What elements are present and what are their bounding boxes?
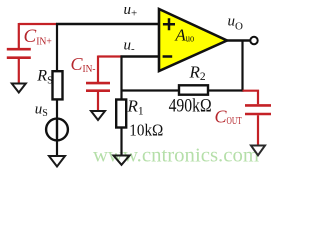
wire: feedback row right segment to output drop bbox=[208, 89, 244, 91]
resistor R1 bbox=[116, 100, 126, 128]
resistor RS bbox=[53, 71, 63, 99]
svg-text:u+: u+ bbox=[124, 2, 138, 20]
node u+ label bbox=[124, 2, 138, 20]
ground (COUT) bbox=[251, 146, 265, 156]
label R2 bbox=[189, 63, 206, 84]
svg-text:u-: u- bbox=[124, 37, 136, 55]
wire: junction down to RS bbox=[56, 23, 58, 71]
wire: output drop to feedback row bbox=[241, 41, 243, 92]
label CIN- bbox=[71, 54, 96, 75]
svg-text:uS: uS bbox=[35, 102, 48, 119]
wire: op-amp output to terminal bbox=[227, 39, 250, 41]
wire: COUT lead to ground bbox=[257, 115, 259, 144]
svg-text:RS: RS bbox=[36, 68, 53, 87]
node uO label bbox=[228, 14, 244, 33]
label 490k bbox=[169, 95, 212, 116]
ground (CIN+) bbox=[12, 84, 26, 93]
wire: CIN- vertical red lead bbox=[97, 56, 99, 83]
label uS bbox=[35, 102, 48, 119]
label Auo bbox=[174, 25, 194, 44]
wire: u- junction down to R1 bbox=[120, 56, 122, 100]
node u- label bbox=[124, 37, 136, 55]
op-amp U1 Auo bbox=[159, 9, 227, 71]
label 10k bbox=[129, 121, 163, 140]
capacitor COUT bbox=[245, 105, 271, 114]
svg-text:uO: uO bbox=[228, 14, 244, 33]
wire: source to ground bbox=[56, 140, 58, 155]
label COUT bbox=[215, 107, 242, 128]
watermark www.cntronics.com bbox=[93, 145, 259, 167]
svg-text:R1: R1 bbox=[127, 96, 144, 117]
wire: RS to source bbox=[56, 99, 58, 119]
output terminal circle bbox=[250, 37, 257, 44]
label R1 bbox=[127, 96, 144, 117]
wire: red segment to COUT bbox=[243, 91, 259, 105]
wire: CIN+ vertical red lead bbox=[18, 23, 20, 48]
svg-text:COUT: COUT bbox=[215, 107, 242, 128]
label RS bbox=[36, 68, 53, 87]
wire: u+ red segment from CIN+ to RS junction bbox=[19, 23, 57, 25]
wire: u- black wire to op-amp minus input bbox=[121, 55, 161, 57]
wire: CIN- lead to ground bbox=[97, 92, 99, 110]
svg-text:CIN-: CIN- bbox=[71, 54, 96, 75]
svg-text:490kΩ: 490kΩ bbox=[169, 95, 212, 116]
label CIN+ bbox=[24, 26, 52, 47]
wire: CIN+ lead to ground bbox=[18, 59, 20, 83]
op-amp minus input marking bbox=[163, 55, 173, 58]
op-amp plus input marking bbox=[163, 18, 175, 30]
resistor R2 bbox=[179, 85, 208, 94]
svg-text:CIN+: CIN+ bbox=[24, 26, 52, 47]
ground (R1) bbox=[114, 156, 130, 165]
source uS circle bbox=[46, 119, 68, 141]
svg-text:R2: R2 bbox=[189, 63, 206, 84]
wire: R1 to ground bbox=[120, 128, 122, 155]
wire: u+ black wire to op-amp bbox=[56, 23, 160, 25]
capacitor CIN- bbox=[86, 83, 110, 91]
wire: feedback row left segment to R2 bbox=[122, 89, 180, 91]
wire: u- red segment from CIN- bbox=[98, 55, 122, 57]
svg-text:10kΩ: 10kΩ bbox=[129, 121, 163, 140]
ground (uS) bbox=[49, 156, 65, 167]
ground (CIN-) bbox=[91, 111, 105, 120]
capacitor CIN+ bbox=[7, 49, 31, 58]
